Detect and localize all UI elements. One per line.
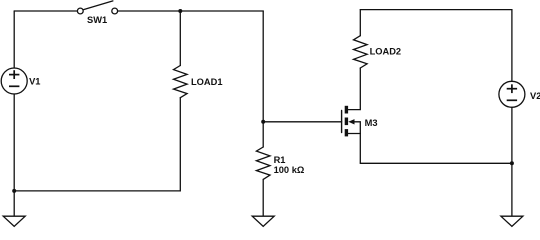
ground (middle)	[252, 216, 274, 226]
wire source to V2 bottom	[360, 162, 512, 164]
svg-text:100 kΩ: 100 kΩ	[274, 165, 305, 175]
body arrow lead	[353, 122, 360, 134]
switch SW1	[77, 1, 117, 14]
channel bars	[345, 106, 348, 137]
svg-text:V1: V1	[29, 77, 40, 87]
wire vertical down to gate node	[262, 11, 264, 122]
transistor M3 (NMOS)	[342, 68, 361, 163]
wire V1 top vertical	[13, 11, 15, 68]
wire V2 bottom vertical	[511, 107, 513, 216]
resistor LOAD2	[354, 10, 368, 68]
svg-text:LOAD2: LOAD2	[370, 47, 402, 57]
wire SW1 to top-right corner	[118, 10, 264, 12]
svg-text:R1: R1	[274, 155, 286, 165]
svg-text:SW1: SW1	[87, 15, 107, 25]
voltage source V2	[499, 81, 525, 107]
svg-text:M3: M3	[365, 118, 378, 128]
wire V1 bottom vertical	[13, 94, 15, 216]
svg-text:LOAD1: LOAD1	[191, 77, 223, 87]
ground (left)	[3, 216, 25, 226]
node junction at gate node	[261, 120, 265, 124]
wire gate node to MOSFET gate	[263, 121, 341, 123]
source lead	[348, 134, 360, 164]
voltage source V1	[1, 68, 27, 94]
wire bottom-left horizontal	[14, 98, 180, 191]
resistor R1	[256, 122, 270, 216]
gate line	[341, 111, 343, 133]
node junction at LOAD1 top	[178, 9, 182, 13]
svg-text:V2: V2	[530, 91, 540, 101]
node junction at V2 bottom wire	[510, 161, 514, 165]
ground (right)	[501, 216, 523, 226]
resistor LOAD1	[174, 11, 188, 98]
node junction at V1 bottom	[12, 189, 16, 193]
drain lead	[348, 68, 360, 110]
wire top-right	[360, 10, 512, 82]
wire top-left: V1 top to SW1	[14, 10, 77, 12]
